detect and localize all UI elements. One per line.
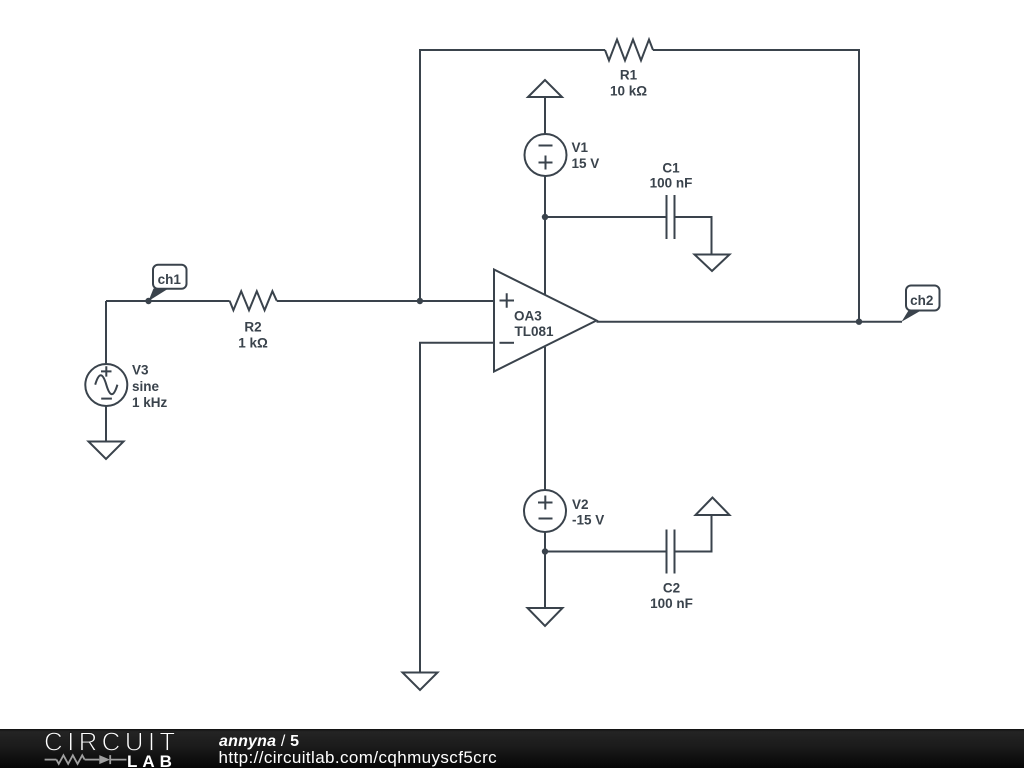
voltage source V3 (85, 364, 127, 406)
svg-text:ch1: ch1 (158, 272, 182, 287)
ground V2 (528, 608, 563, 626)
logo diode (99, 755, 110, 764)
node dot V+ (542, 214, 548, 220)
flag ch2 box (906, 286, 940, 311)
svg-text:sine: sine (132, 379, 160, 394)
capacitor C2 (667, 530, 675, 574)
svg-text:1 kΩ: 1 kΩ (238, 336, 268, 351)
svg-text:OA3: OA3 (514, 309, 542, 324)
voltage source V2 (524, 490, 566, 532)
flag ch2 pointer (902, 311, 922, 322)
svg-text:1 kHz: 1 kHz (132, 395, 168, 410)
wire C1 to ground (676, 217, 712, 255)
flag ch1 box (153, 265, 187, 289)
wire C2 to flag (676, 515, 712, 552)
wire top feedback right segment (653, 50, 859, 322)
wire op-amp V- to V2 (544, 347, 546, 490)
node junction feedback/input (417, 298, 423, 304)
wire arrow to V1 (544, 97, 546, 134)
capacitor C1 (667, 195, 675, 239)
svg-text:C2: C2 (663, 581, 680, 596)
svg-text:LAB: LAB (127, 752, 177, 768)
voltage source V1 (525, 134, 567, 176)
wire V3 to ground (105, 406, 107, 442)
svg-text:V1: V1 (572, 140, 589, 155)
svg-text:15 V: 15 V (572, 156, 600, 171)
wire input left (106, 300, 230, 302)
ground V3 (89, 442, 124, 460)
node output junction (856, 319, 862, 325)
footer bar (0, 729, 1024, 768)
node ch1 dot (145, 298, 151, 304)
svg-text:10 kΩ: 10 kΩ (610, 84, 647, 99)
wire top feedback left segment (420, 50, 605, 301)
power flag arrow above V1 (528, 80, 562, 97)
svg-text:100 nF: 100 nF (650, 596, 693, 611)
logo schematic wire (45, 755, 127, 764)
wire R2 to op-amp plus (277, 300, 494, 302)
op-amp U1 OA3 (494, 270, 597, 372)
svg-text:http://circuitlab.com/cqhmuysc: http://circuitlab.com/cqhmuyscf5crc (219, 748, 498, 767)
flag ch1 pointer (149, 289, 169, 302)
wire node to C1 (545, 216, 666, 218)
svg-text:C1: C1 (662, 161, 680, 176)
wire V2 to ground (544, 532, 546, 608)
svg-text:100 nF: 100 nF (650, 176, 693, 191)
svg-text:R2: R2 (244, 319, 261, 334)
svg-text:TL081: TL081 (515, 324, 555, 339)
power flag arrow C2 (696, 498, 730, 516)
resistor R1 (605, 40, 653, 61)
svg-text:-15 V: -15 V (572, 513, 604, 528)
wire node to C2 (545, 551, 666, 553)
logo resistor (56, 755, 84, 764)
ground minus wire (403, 673, 438, 691)
node dot V- (542, 548, 548, 554)
svg-text:V3: V3 (132, 363, 149, 378)
wire ch1 corner to V3 (105, 301, 107, 364)
svg-text:R1: R1 (620, 68, 638, 83)
resistor R2 (230, 291, 277, 310)
ground C1 (695, 255, 730, 272)
wire V1 to op-amp V+ (544, 176, 546, 295)
svg-text:ch2: ch2 (910, 293, 933, 308)
svg-text:V2: V2 (572, 497, 589, 512)
wire op-amp minus to ground (420, 343, 494, 673)
wire output (597, 321, 903, 323)
